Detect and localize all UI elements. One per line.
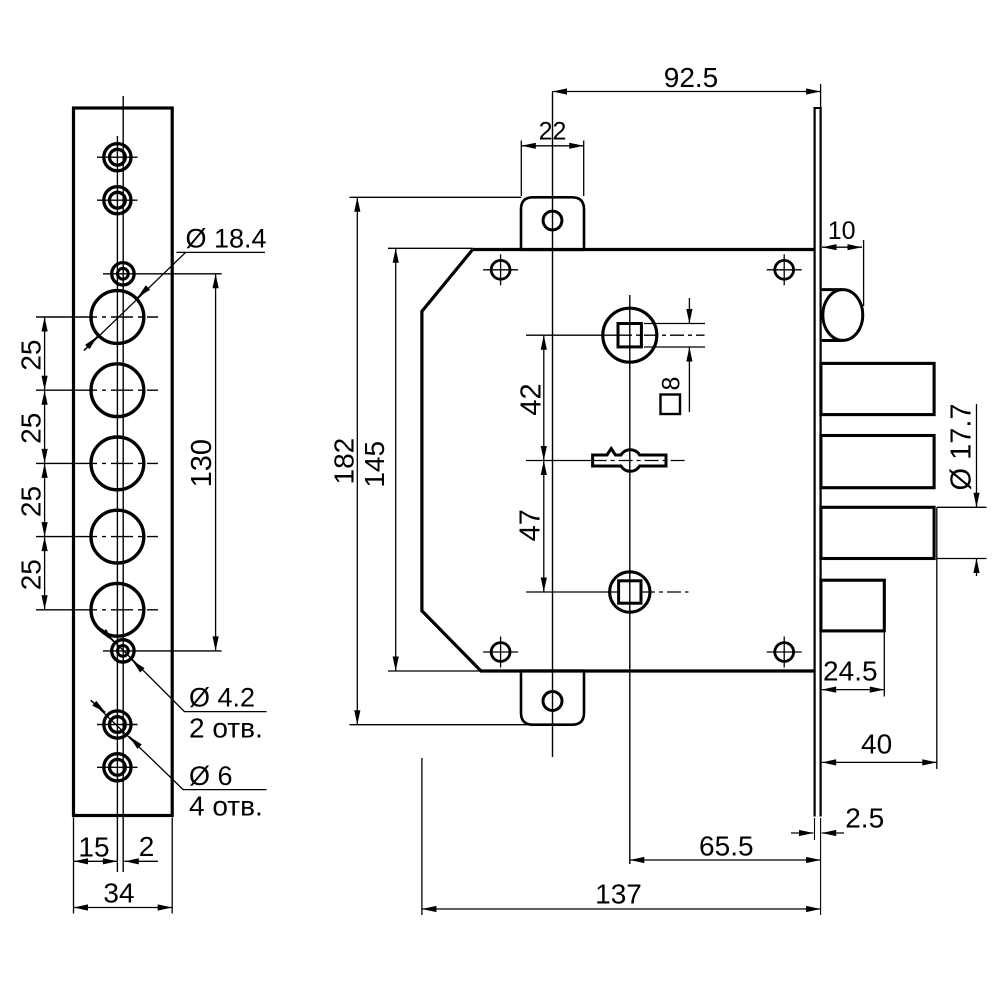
svg-text:22: 22 (539, 118, 567, 146)
bottom mounting tab (521, 671, 584, 725)
hub circle (610, 572, 650, 612)
dimension 137 (422, 758, 821, 915)
dimension 65.5 (630, 831, 821, 862)
dimension 130 line (215, 274, 217, 651)
bolt 1 (821, 363, 934, 414)
leader Ø4.2 (102, 629, 267, 744)
dimension text 25 #1 (16, 340, 47, 371)
svg-text:25: 25 (16, 559, 47, 590)
leader Ø6 (91, 700, 267, 821)
faceplate screw-hole centerline (15mm line) (116, 136, 118, 872)
fixing screw cross #1 (483, 254, 518, 285)
dimension 145 (359, 248, 481, 671)
hole Ø18.4 #1 (36, 291, 158, 344)
dimension 47 (514, 461, 546, 593)
fixing screw cross #2 (767, 254, 802, 285)
dimension 2 (124, 831, 158, 862)
svg-text:145: 145 (359, 441, 390, 488)
dimension 24.5 (822, 632, 885, 697)
svg-text:Ø 17.7: Ø 17.7 (946, 403, 978, 490)
hole Ø4.2 bottom (103, 640, 222, 662)
follower column centerline (629, 295, 631, 864)
dimension 15 (74, 832, 118, 863)
fixing screw cross #3 (483, 637, 518, 668)
svg-text:Ø 4.2: Ø 4.2 (189, 683, 255, 713)
hole Ø6 countersunk top #2 (97, 187, 138, 214)
dimension 2.5 (791, 803, 884, 916)
svg-text:Ø 18.4: Ø 18.4 (186, 224, 267, 254)
svg-text:92.5: 92.5 (664, 62, 719, 93)
svg-text:40: 40 (861, 729, 892, 760)
top mounting tab (521, 197, 584, 249)
svg-text:25: 25 (16, 340, 47, 371)
svg-text:4 отв.: 4 отв. (189, 791, 263, 822)
svg-text:25: 25 (16, 413, 47, 444)
follower centerline horizontal (526, 334, 705, 336)
hub square (619, 581, 641, 603)
svg-text:24.5: 24.5 (823, 656, 878, 687)
hole Ø18.4 #5 (36, 583, 158, 636)
leader Ø18.4 (84, 224, 267, 351)
dimension 22 (521, 118, 583, 197)
dimension text 25 #2 (16, 413, 47, 444)
svg-text:137: 137 (595, 879, 642, 910)
svg-text:Ø 6: Ø 6 (189, 761, 233, 791)
bolt 3 (821, 507, 934, 558)
tab centerline (552, 92, 554, 758)
hole Ø6 countersunk top #1 (97, 144, 138, 171)
svg-text:15: 15 (78, 832, 109, 863)
dimension Ø17.7 (937, 403, 987, 576)
hole Ø18.4 #3 (36, 437, 158, 490)
faceplate outline (left view) (74, 108, 173, 816)
faceplate main centerline (plate axis) (122, 96, 124, 872)
svg-text:42: 42 (515, 383, 547, 415)
svg-text:47: 47 (514, 509, 546, 541)
dimension text 25 #3 (16, 486, 47, 517)
follower square (618, 324, 641, 347)
svg-text:10: 10 (828, 217, 856, 245)
dimension 182 (328, 197, 528, 724)
cylinder bump (822, 290, 863, 341)
lever flower (593, 449, 666, 472)
svg-text:130: 130 (186, 439, 218, 487)
svg-text:2: 2 (139, 831, 155, 862)
dimension 40 (822, 507, 937, 769)
svg-text:25: 25 (16, 486, 47, 517)
plate edge extension lines (74, 818, 173, 914)
flower centerline horizontal (526, 460, 689, 462)
fixing screw cross #4 (767, 637, 802, 668)
hole Ø4.2 top (103, 263, 222, 285)
svg-text:8: 8 (657, 377, 685, 391)
dimension 8 square (644, 298, 705, 414)
svg-text:34: 34 (103, 878, 134, 909)
dimension chain 25 lines (44, 317, 46, 610)
bolt 2 (821, 436, 934, 488)
hole Ø18.4 #2 (36, 364, 158, 417)
dimension text 130 (186, 439, 218, 487)
hole Ø18.4 #4 (36, 510, 158, 563)
follower circle (603, 308, 657, 362)
svg-text:65.5: 65.5 (699, 831, 754, 862)
dimension 34 (74, 878, 173, 909)
svg-text:182: 182 (328, 438, 359, 485)
dimension 92.5 (553, 62, 821, 107)
dimension 10 (822, 217, 864, 306)
hole Ø6 countersunk bottom #2 (97, 754, 138, 781)
latch bolt (821, 580, 884, 631)
svg-text:2 отв.: 2 отв. (189, 713, 263, 744)
dimension text 25 #4 (16, 559, 47, 590)
hole Ø6 countersunk bottom #1 (97, 711, 138, 738)
dimension 42 (515, 335, 547, 460)
svg-text:2.5: 2.5 (845, 803, 884, 834)
faceplate strip (side view) (814, 108, 822, 817)
hub centerline horizontal (526, 591, 689, 593)
lock body outline (422, 250, 816, 672)
